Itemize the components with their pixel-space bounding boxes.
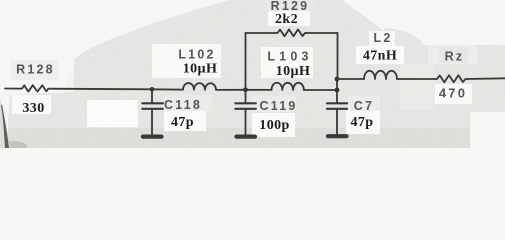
white label box L2 [369,31,395,46]
wire R128 to C118 node [48,88,152,91]
paper background base [0,0,505,148]
inductor L103 [272,83,304,90]
white box mid-left [87,100,138,127]
wire left segment to R128 [5,88,20,90]
wire Rz to right edge [468,77,505,80]
node C119 junction dot [243,87,248,92]
white label box C118 [163,95,212,111]
white label box 470 [435,84,472,104]
wire L2 to Rz [397,78,435,80]
resistor Rz [435,75,468,82]
lighter zone right-mid [428,45,477,64]
inductor L102 [183,83,216,90]
capacitor C7 [336,90,338,102]
white label box L102 [152,44,221,78]
node C118 junction dot [150,87,155,92]
R129 branch top rail left [246,32,276,34]
white label box 47nH [356,46,404,64]
gray label box Rz [439,47,468,63]
wire L102 to C119 node [216,89,246,91]
scan grain overlay [0,0,505,148]
wire C119 node to L103 [246,89,272,91]
white label box C119/100p [253,96,296,112]
bottom-right white corner [470,112,505,148]
white label box 330 [12,95,51,114]
capacitor C118 [151,89,153,102]
node C junction dot [335,77,340,82]
R129 branch right leg [337,33,339,79]
inductor L2 [364,71,397,79]
white label box 47p (C118) [164,111,206,131]
darker smudge bottom-left [1,141,27,151]
gray patch texture darker bottom band [8,128,470,148]
R129 branch top rail right [307,32,338,34]
vertical link node B to node C [336,79,338,90]
faint halo above gray boundary [0,0,260,148]
R129 branch left leg [245,33,247,90]
resistor R128 [20,85,48,91]
scanned gray blob [8,0,505,148]
white label box 2k2 [268,11,310,26]
wire C118 node to L102 [152,88,183,90]
capacitor C119 [245,90,247,102]
wire L103 to node B [304,89,337,91]
gray label box R129 [264,0,316,11]
white label box L103 [261,47,313,78]
dark scan shadow bottom-left [0,98,10,148]
resistor R129 [276,29,307,36]
white label box R128 [11,60,58,80]
node B junction dot [335,88,340,93]
wire node C to L2 [337,78,364,80]
gray bump right of 47nH [384,28,426,64]
white label box C7/47p [348,96,380,111]
